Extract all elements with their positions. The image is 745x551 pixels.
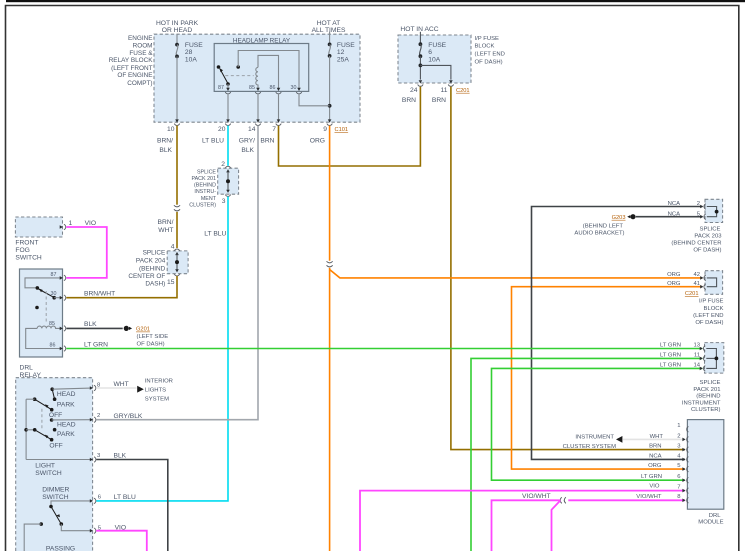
svg-text:G201: G201 — [136, 327, 150, 333]
svg-text:LIGHTS: LIGHTS — [145, 388, 166, 394]
light switch HEAD2 contact to pin 2 — [50, 418, 91, 422]
block pin 9 — [323, 119, 332, 133]
svg-text:INTERIOR: INTERIOR — [145, 378, 173, 384]
DRL relay stray contact dot — [35, 306, 39, 310]
svg-text:87: 87 — [218, 85, 224, 91]
svg-text:WHT: WHT — [158, 227, 173, 234]
svg-text:BLK: BLK — [241, 147, 254, 154]
svg-text:4: 4 — [171, 243, 175, 250]
svg-text:ORG: ORG — [667, 281, 681, 287]
junction node fuse12 / relay pin30 — [328, 104, 332, 108]
svg-text:CLUSTER): CLUSTER) — [691, 407, 720, 413]
wire BRN I/P fuse pin11 to DRL module pin3 — [451, 87, 685, 450]
dimmer switch blade — [51, 507, 63, 526]
svg-text:BRN/WHT: BRN/WHT — [84, 291, 115, 298]
svg-text:14: 14 — [248, 126, 256, 133]
svg-text:SWITCH: SWITCH — [35, 470, 62, 477]
splice pack 201 left caption — [189, 169, 216, 208]
svg-text:BRN/: BRN/ — [158, 219, 174, 226]
svg-text:2: 2 — [221, 161, 225, 168]
svg-text:HEADLAMP RELAY: HEADLAMP RELAY — [233, 38, 291, 45]
svg-text:LT BLU: LT BLU — [114, 494, 136, 501]
svg-text:HEAD: HEAD — [57, 391, 76, 398]
wire NCA G203 to splice203 pin5 — [636, 216, 702, 218]
wire BLK relay pin85 to G201 — [66, 327, 122, 329]
wire VIO dimmer pin5 to bottom — [96, 531, 147, 551]
splice pack 203 pin 5 — [697, 211, 706, 219]
wire relay pin85 to block pin 14 — [257, 94, 259, 122]
svg-text:14: 14 — [693, 363, 700, 369]
svg-text:(LEFT FRONT: (LEFT FRONT — [111, 65, 153, 72]
node HOT IN PARK OR HEAD — [156, 20, 199, 34]
wire VIO/WHT left branch — [492, 500, 561, 551]
wire LT BLU splice201 to dimmer switch pin6 — [96, 197, 228, 501]
wire VIO/WHT DRL module pin8 — [568, 499, 685, 501]
light switch section2 labels — [49, 421, 75, 449]
svg-text:VIO/WHT: VIO/WHT — [522, 493, 551, 500]
DRL module pin 4 — [677, 453, 688, 462]
light switch (dashed box) — [16, 378, 93, 551]
svg-text:10A: 10A — [185, 57, 197, 64]
wire label GRY/BLK — [239, 137, 255, 154]
headlamp relay mechanical link (dashed) — [225, 75, 253, 77]
dimmer switch passing contact — [24, 522, 43, 551]
DRL relay box — [20, 269, 63, 357]
svg-text:30: 30 — [291, 85, 297, 91]
svg-text:PACK 201: PACK 201 — [191, 176, 216, 182]
svg-text:(BEHIND: (BEHIND — [194, 183, 216, 189]
svg-text:SPLICE: SPLICE — [700, 380, 721, 386]
svg-text:C201: C201 — [456, 88, 470, 94]
instrument cluster system arrow — [563, 435, 623, 451]
svg-text:42: 42 — [693, 272, 700, 278]
svg-text:85: 85 — [49, 321, 55, 327]
svg-text:C101: C101 — [335, 127, 349, 133]
svg-text:20: 20 — [218, 126, 226, 133]
svg-text:DRL: DRL — [20, 365, 34, 372]
svg-text:OF DASH): OF DASH) — [475, 59, 503, 65]
DRL module pin 2 — [677, 433, 688, 442]
svg-text:COMPT): COMPT) — [127, 80, 152, 87]
headlamp relay box — [214, 38, 309, 92]
svg-text:PACK 204: PACK 204 — [136, 258, 166, 265]
DRL relay mechanical link (dashed) — [45, 291, 47, 324]
svg-text:BLK: BLK — [159, 147, 172, 154]
inline connector on ORG wire — [327, 261, 333, 267]
svg-text:BLOCK: BLOCK — [475, 44, 495, 50]
wire VIO to DRL module pin7 — [360, 491, 685, 551]
wire VIO/WHT diagonal branch to bottom — [552, 501, 561, 551]
splice pack 203 pin 2 — [697, 201, 706, 209]
block pin 10 — [167, 119, 180, 133]
engine room block caption — [109, 35, 154, 87]
svg-text:13: 13 — [693, 343, 700, 349]
wire LT GRN splice201 pin14 to DRL module pin6 — [492, 368, 703, 480]
svg-text:VIO/WHT: VIO/WHT — [636, 494, 662, 500]
svg-text:ORG: ORG — [648, 463, 662, 469]
block pin 11 — [441, 80, 454, 94]
svg-text:MENT: MENT — [201, 196, 217, 202]
DRL relay pin 87 — [51, 272, 66, 280]
wire NCA splice203 pin2 to DRL module pin4 — [532, 207, 703, 460]
headlamp relay pin 87 — [218, 85, 231, 94]
splice pack 201 (behind instrument cluster, left) — [218, 161, 239, 205]
svg-text:(LEFT SIDE: (LEFT SIDE — [137, 334, 169, 340]
headlamp relay coil — [256, 55, 279, 88]
svg-text:FOG: FOG — [15, 247, 30, 254]
svg-text:VIO: VIO — [649, 483, 660, 489]
svg-text:LT GRN: LT GRN — [660, 353, 681, 359]
svg-text:INSTRU-: INSTRU- — [194, 189, 216, 195]
wire ORG I/P fuse pin41 to DRL module pin5 — [512, 287, 703, 469]
block pin 14 — [248, 119, 261, 133]
svg-text:10: 10 — [167, 126, 175, 133]
svg-text:HEAD: HEAD — [57, 421, 76, 428]
DRL module pin 8 — [677, 494, 688, 503]
engine room fuse and relay block (dashed box) — [154, 34, 360, 122]
DRL module pin 7 — [677, 485, 688, 494]
svg-text:PARK: PARK — [57, 431, 75, 438]
inline connector on BRN wire — [174, 205, 180, 211]
wire BLK light switch pin3 to bottom — [96, 460, 168, 551]
svg-text:FRONT: FRONT — [15, 239, 38, 246]
svg-text:LT BLU: LT BLU — [204, 230, 226, 237]
svg-text:OFF: OFF — [49, 412, 62, 419]
svg-text:2: 2 — [697, 201, 700, 207]
node HOT AT ALL TIMES — [312, 20, 346, 34]
svg-text:INSTRUMENT: INSTRUMENT — [575, 435, 614, 441]
svg-text:ROOM: ROOM — [133, 43, 153, 50]
svg-text:SPLICE: SPLICE — [700, 227, 721, 233]
svg-text:WHT: WHT — [650, 434, 664, 440]
svg-text:OF DASH): OF DASH) — [137, 342, 165, 348]
svg-text:2: 2 — [677, 433, 680, 439]
svg-text:28: 28 — [185, 49, 193, 56]
I/P fuse block caption — [475, 36, 505, 66]
svg-text:OR HEAD: OR HEAD — [162, 27, 193, 34]
wire relay pin86 to block pin 7 — [278, 94, 280, 122]
svg-text:BRN: BRN — [649, 444, 661, 450]
light switch left bus — [24, 399, 34, 459]
svg-text:G203: G203 — [612, 215, 626, 221]
light switch pivot 1 and blade — [26, 397, 53, 411]
svg-text:FUSE: FUSE — [428, 42, 446, 49]
svg-text:BLK: BLK — [114, 452, 127, 459]
svg-text:GRY/BLK: GRY/BLK — [114, 413, 143, 420]
headlamp relay switch blade to pin 87 — [219, 68, 229, 89]
svg-text:SPLICE: SPLICE — [197, 169, 216, 175]
splice pack 204 — [167, 243, 188, 286]
light switch pivot 2 and blade — [33, 428, 53, 442]
svg-text:OF ENGINE: OF ENGINE — [117, 72, 152, 79]
svg-text:CLUSTER SYSTEM: CLUSTER SYSTEM — [563, 444, 616, 450]
wire BRN/WHT splice204 to DRL relay pin30 — [66, 276, 177, 298]
svg-text:LT GRN: LT GRN — [641, 474, 662, 480]
svg-text:41: 41 — [693, 281, 700, 287]
fuse 12 25A — [328, 32, 356, 123]
light switch bottom bus to pin 3 — [26, 459, 91, 461]
DRL module pin 6 — [677, 474, 688, 483]
svg-text:FUSE: FUSE — [337, 42, 355, 49]
svg-text:HOT IN PARK: HOT IN PARK — [156, 20, 199, 27]
wire LT GRN splice201 pin11 to bottom — [471, 358, 702, 551]
headlamp relay pin 86 — [270, 85, 282, 94]
light switch pin 3 — [90, 453, 101, 462]
svg-text:LT GRN: LT GRN — [84, 341, 108, 348]
splice pack 201 right caption — [682, 380, 721, 413]
I/P fuse block right caption — [693, 298, 723, 326]
svg-text:SWITCH: SWITCH — [15, 254, 42, 261]
svg-text:HOT AT: HOT AT — [317, 20, 341, 27]
svg-text:I/P FUSE: I/P FUSE — [699, 298, 724, 304]
light switch caption — [35, 462, 62, 477]
ground G201 — [124, 326, 169, 348]
DRL relay pin 87 internal wire and pivot — [25, 278, 62, 290]
DRL relay coil — [26, 326, 62, 348]
svg-text:NCA: NCA — [668, 201, 681, 207]
svg-text:CENTER OF: CENTER OF — [128, 273, 165, 280]
interior lights system arrow — [137, 378, 173, 402]
svg-text:AUDIO BRACKET): AUDIO BRACKET) — [574, 231, 624, 237]
DRL relay pin 30 — [51, 291, 66, 300]
svg-text:86: 86 — [270, 85, 276, 91]
svg-text:SPLICE: SPLICE — [143, 250, 166, 257]
svg-text:SYSTEM: SYSTEM — [145, 396, 169, 402]
wire label BRN/BLK — [157, 137, 173, 154]
DRL module pin 5 — [677, 463, 688, 472]
svg-text:85: 85 — [249, 85, 255, 91]
I/P fuse block pin 42 — [693, 272, 705, 280]
fuse 28 10A — [175, 34, 203, 122]
svg-text:VIO: VIO — [85, 220, 97, 227]
svg-text:GRY/: GRY/ — [239, 137, 255, 144]
svg-text:FUSE &: FUSE & — [129, 50, 153, 57]
svg-text:NCA: NCA — [668, 211, 681, 217]
svg-text:BRN: BRN — [260, 137, 274, 144]
svg-text:DRL: DRL — [709, 513, 722, 519]
splice pack 204 caption — [128, 250, 165, 288]
wire BRN block pin7 to I/P fuse pin24 — [279, 87, 421, 166]
svg-text:BRN/: BRN/ — [157, 137, 173, 144]
svg-text:25A: 25A — [337, 57, 349, 64]
splice pack 201 pin 11 — [694, 353, 705, 361]
headlamp relay contact C to pin 30 rail — [236, 51, 299, 89]
light switch PARK2 contact — [53, 428, 57, 432]
svg-text:(LEFT END: (LEFT END — [693, 313, 723, 319]
front fog switch (dashed box) — [15, 217, 62, 261]
svg-text:ALL TIMES: ALL TIMES — [312, 27, 346, 34]
svg-text:FUSE: FUSE — [185, 42, 203, 49]
light switch HEAD contact to pin 8 — [50, 387, 91, 401]
wire LT GRN relay pin86 to splice201 pin13 — [66, 348, 702, 350]
svg-text:OF DASH): OF DASH) — [695, 320, 723, 326]
svg-text:(BEHIND LEFT: (BEHIND LEFT — [583, 223, 624, 229]
svg-text:PASSING: PASSING — [46, 545, 75, 551]
wire label BRN/WHT vertical — [158, 219, 174, 234]
wire fuse6 branch to pin 11 — [420, 65, 451, 79]
svg-text:(BEHIND: (BEHIND — [139, 265, 166, 272]
svg-text:2: 2 — [97, 413, 100, 419]
svg-text:MODULE: MODULE — [698, 520, 723, 526]
wire WHT light switch pin8 to interior lights — [96, 387, 136, 389]
svg-text:BRN: BRN — [402, 97, 416, 104]
svg-text:PARK: PARK — [57, 401, 75, 408]
svg-text:LT BLU: LT BLU — [202, 137, 224, 144]
wire BRN/BLK from block pin10 — [176, 126, 178, 205]
headlamp relay pin 85 — [249, 85, 261, 94]
dimmer switch pin 6 — [90, 495, 102, 504]
wire ORG branch to I/P fuse block pin42 — [330, 270, 703, 278]
DRL module pin 3 — [677, 444, 688, 453]
I/P fuse block right (dashed box) — [705, 271, 723, 295]
light switch mechanical link (dashed) — [41, 409, 43, 429]
svg-text:PACK 203: PACK 203 — [694, 234, 722, 240]
svg-text:9: 9 — [323, 126, 327, 133]
front fog switch pin 1 — [60, 220, 73, 230]
svg-text:LT GRN: LT GRN — [660, 343, 681, 349]
svg-text:7: 7 — [272, 126, 276, 133]
wire relay pin87 to block pin 20 — [227, 94, 229, 122]
svg-text:24: 24 — [410, 87, 418, 94]
svg-text:12: 12 — [337, 49, 345, 56]
G203 caption — [574, 223, 624, 236]
DRL relay pin 86 — [50, 343, 66, 352]
block pin 24 — [410, 80, 423, 94]
dimmer switch pivot to pin 6 — [49, 501, 91, 508]
svg-text:86: 86 — [50, 343, 56, 349]
svg-text:3: 3 — [222, 198, 226, 205]
svg-text:PACK 201: PACK 201 — [693, 387, 720, 393]
DRL relay pin 85 — [49, 321, 66, 331]
wire GRY/BLK block pin14 to light switch pin2 — [96, 126, 258, 420]
svg-text:6: 6 — [428, 49, 432, 56]
svg-text:OF DASH): OF DASH) — [693, 248, 721, 254]
svg-text:I/P FUSE: I/P FUSE — [475, 36, 500, 42]
wire relay pin30 to fuse 12 junction — [299, 94, 330, 106]
dimmer switch contact to pin 5 — [61, 524, 91, 531]
svg-text:10A: 10A — [428, 57, 440, 64]
svg-text:OFF: OFF — [49, 443, 62, 450]
svg-text:LIGHT: LIGHT — [35, 462, 55, 469]
wire VIO fog switch to DRL relay pin87 — [66, 227, 107, 278]
block pin 7 — [272, 119, 281, 133]
svg-text:ORG: ORG — [667, 272, 681, 278]
svg-text:11: 11 — [694, 353, 700, 359]
splice pack 201 right (dashed box) — [705, 343, 724, 374]
DRL module box — [687, 420, 723, 510]
page top black bar — [6, 0, 745, 2]
svg-text:ENGINE: ENGINE — [128, 35, 153, 42]
splice pack 203 (dashed box) — [705, 199, 723, 222]
svg-text:30: 30 — [51, 291, 57, 297]
svg-text:LT GRN: LT GRN — [660, 363, 681, 369]
DRL module pin 1 — [677, 423, 688, 432]
svg-text:(BEHIND: (BEHIND — [696, 394, 720, 400]
wire LT BLU block pin20 to splice pack 201 — [227, 126, 229, 166]
DRL relay switch blade — [39, 289, 62, 300]
svg-text:DIMMER: DIMMER — [42, 487, 69, 494]
svg-text:87: 87 — [51, 272, 57, 278]
light switch pin 8 — [90, 383, 101, 391]
splice pack 201 pin 14 — [693, 363, 705, 371]
wire WHT instrument cluster to DRL module pin2 — [623, 438, 685, 440]
light switch pin 2 — [90, 413, 100, 422]
splice pack 203 caption — [671, 227, 722, 254]
dimmer switch pin 5 — [90, 525, 102, 533]
svg-text:WHT: WHT — [114, 381, 129, 388]
DRL relay caption — [20, 365, 42, 379]
junction node fuse 6 output — [419, 64, 423, 68]
wire BRN/WHT to splice pack 204 — [176, 212, 178, 248]
svg-text:NCA: NCA — [649, 454, 662, 460]
splice pack 201 pin 13 — [693, 343, 705, 352]
svg-text:15: 15 — [167, 279, 175, 286]
svg-text:INSTRUMENT: INSTRUMENT — [682, 400, 721, 406]
I/P fuse block pin 41 — [693, 281, 705, 290]
svg-text:C201: C201 — [685, 291, 699, 297]
svg-text:BLK: BLK — [84, 321, 97, 328]
fuse 6 10A — [419, 32, 447, 80]
headlamp relay pin 30 — [291, 85, 302, 94]
dimmer switch caption — [42, 487, 69, 501]
block pin 20 — [218, 119, 231, 133]
inline connector on VIO/WHT wire — [560, 497, 566, 503]
DRL module caption — [698, 513, 723, 526]
svg-text:RELAY BLOCK: RELAY BLOCK — [109, 57, 154, 64]
svg-text:1: 1 — [677, 423, 680, 429]
ground G203 — [612, 214, 636, 221]
svg-text:(BEHIND CENTER: (BEHIND CENTER — [671, 241, 721, 247]
svg-text:1: 1 — [69, 220, 73, 227]
svg-text:SWITCH: SWITCH — [42, 494, 69, 501]
svg-text:CLUSTER): CLUSTER) — [189, 202, 216, 208]
headlamp relay switch contact A — [217, 65, 221, 69]
svg-text:7: 7 — [677, 485, 680, 491]
wire ORG continues to bottom edge — [329, 268, 331, 551]
svg-text:11: 11 — [441, 87, 448, 94]
I/P fuse block (hot in acc, dashed box) — [398, 35, 471, 83]
svg-text:DASH): DASH) — [145, 281, 165, 288]
svg-text:(LEFT END: (LEFT END — [475, 52, 505, 58]
svg-text:ORG: ORG — [310, 137, 325, 144]
light switch section1 labels — [49, 391, 76, 419]
svg-text:BLOCK: BLOCK — [704, 306, 724, 312]
svg-text:HOT IN ACC: HOT IN ACC — [400, 26, 438, 33]
svg-text:BRN: BRN — [432, 97, 446, 104]
wire ORG block pin9 down — [329, 126, 331, 261]
